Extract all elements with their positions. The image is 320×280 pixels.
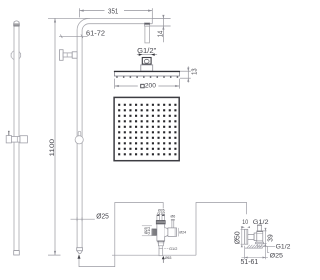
riser bottom cap bbox=[77, 248, 83, 251]
connector nut bbox=[142, 58, 151, 65]
shower head bottom view square bbox=[114, 97, 179, 160]
svg-text:Ø25: Ø25 bbox=[96, 212, 109, 221]
svg-text:14: 14 bbox=[156, 31, 165, 38]
shower arm drop collar bbox=[145, 23, 150, 26]
svg-text:61-72: 61-72 bbox=[86, 29, 105, 38]
dimension 13 extension lines bbox=[180, 70, 191, 72]
diverter outlet ball joint bulge bbox=[165, 228, 169, 237]
diverter bottom label G1/2 bbox=[164, 247, 168, 249]
svg-text:G1/2: G1/2 bbox=[147, 227, 151, 235]
supply elbow valve body bbox=[257, 231, 263, 242]
svg-text:10: 10 bbox=[242, 219, 248, 226]
wall hatch at elbow bbox=[247, 245, 250, 248]
dimension diameter50 bbox=[241, 228, 245, 230]
svg-text:Ø24: Ø24 bbox=[179, 230, 186, 234]
wall bracket clamp bbox=[72, 52, 77, 58]
dimension 1100 line bbox=[54, 18, 56, 255]
dimension 14 extension lines bbox=[152, 18, 170, 20]
dimension 351 extension lines bbox=[79, 8, 81, 17]
dimension 1100 extension lines bbox=[48, 17, 90, 19]
svg-text:200: 200 bbox=[145, 83, 156, 90]
dimension 39 bbox=[263, 230, 267, 232]
svg-text:39: 39 bbox=[267, 234, 275, 241]
slide rail body bbox=[14, 22, 19, 251]
diverter lower body bbox=[158, 241, 163, 246]
slide rail bottom cap bbox=[14, 251, 20, 255]
diverter inlet arrow bbox=[162, 256, 165, 259]
label diameter24 bbox=[177, 228, 179, 237]
svg-text:G1/2”: G1/2” bbox=[137, 46, 157, 55]
hand shower rail wall bracket circle bbox=[11, 50, 21, 60]
dimension 61-72 line bbox=[59, 35, 88, 37]
svg-text:Ø6: Ø6 bbox=[171, 215, 176, 219]
hand shower holder slider bbox=[6, 136, 11, 143]
dimension 51-61 bbox=[244, 246, 246, 259]
shower arm drop pipe bbox=[145, 26, 150, 43]
diverter body bbox=[157, 224, 165, 241]
supply elbow top stem bbox=[257, 225, 259, 231]
svg-text:G1/2: G1/2 bbox=[169, 247, 177, 251]
label diameter25 leader bbox=[71, 218, 95, 220]
diverter handle bbox=[152, 229, 156, 236]
leader to labels G1/2 and diameter25 bbox=[263, 245, 275, 247]
dimension square200 line bbox=[115, 85, 138, 87]
diverter bottom stem bbox=[159, 248, 163, 255]
dimension 351 line bbox=[80, 10, 105, 12]
diverter stem diameter6 bbox=[171, 221, 173, 228]
wall line at elbow bbox=[245, 247, 263, 249]
svg-text:G1/2: G1/2 bbox=[276, 244, 291, 251]
diverter outlet cylinder bbox=[168, 228, 177, 237]
wall line at diverter bbox=[112, 254, 196, 256]
supply elbow pipe bbox=[248, 234, 254, 239]
supply elbow nut bbox=[254, 233, 257, 241]
dimension 13 line bbox=[187, 66, 189, 82]
nozzle dot grid bbox=[118, 104, 120, 106]
riser pipe outline with bend and horizontal arm bbox=[77, 19, 152, 249]
wall bracket plate (61-72) bbox=[60, 50, 64, 61]
connector base block bbox=[141, 65, 153, 71]
dimension square200 text bbox=[141, 84, 145, 88]
diverter top ports bbox=[157, 215, 160, 221]
svg-text:51-61: 51-61 bbox=[241, 258, 259, 266]
flow line diverter top to riser inlet bbox=[79, 203, 163, 267]
diverter knob on riser bbox=[78, 131, 81, 136]
wall bracket arm bbox=[63, 53, 72, 57]
slide rail top knob bbox=[14, 21, 20, 26]
svg-text:Ø63: Ø63 bbox=[165, 256, 172, 260]
svg-text:Ø50: Ø50 bbox=[233, 231, 242, 244]
nozzle ticks under plate bbox=[116, 76, 118, 78]
dimension 14 line bbox=[162, 16, 164, 43]
supply elbow flange bbox=[245, 229, 248, 244]
shower head side view plate bbox=[114, 71, 179, 76]
flow line supply elbow to diverter area bbox=[196, 203, 247, 256]
svg-text:351: 351 bbox=[108, 7, 118, 16]
dimension square200 extension lines bbox=[114, 79, 116, 89]
svg-text:Ø25: Ø25 bbox=[270, 252, 284, 259]
diverter knurled ring bbox=[156, 220, 165, 224]
svg-text:13: 13 bbox=[190, 68, 199, 75]
arm end cap bbox=[151, 19, 153, 24]
svg-text:1100: 1100 bbox=[49, 139, 56, 157]
diverter left labels rotated bbox=[142, 225, 152, 227]
supply elbow foot bbox=[256, 242, 264, 244]
